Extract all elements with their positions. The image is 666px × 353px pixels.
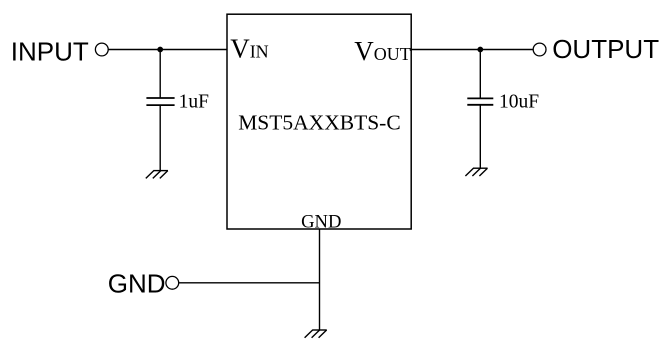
capacitor C1 1uF [146, 98, 174, 105]
wire C1 to ground [159, 105, 161, 171]
svg-text:10uF: 10uF [499, 92, 539, 113]
terminal INPUT [95, 43, 108, 56]
IC body U1 MST5AXXBTS-C [227, 14, 411, 229]
wire C2 to ground [479, 105, 481, 168]
capacitor C2 10uF [467, 98, 493, 104]
svg-text:1uF: 1uF [179, 92, 210, 113]
ground symbol below C2 [465, 168, 487, 176]
svg-text:GND: GND [301, 212, 341, 233]
node junction input/C1 [157, 47, 163, 53]
wire junction down to C1 [159, 50, 161, 99]
svg-text:VIN: VIN [230, 34, 269, 64]
svg-text:INPUT: INPUT [11, 36, 89, 66]
svg-text:MST5AXXBTS-C: MST5AXXBTS-C [238, 111, 400, 135]
terminal GND [166, 276, 179, 289]
node junction output/C2 [477, 47, 483, 53]
wire GND terminal to ground net [179, 282, 320, 284]
svg-text:GND: GND [108, 268, 166, 298]
wire GND pin down to ground [319, 229, 321, 330]
svg-text:VOUT: VOUT [354, 36, 411, 66]
ground symbol below C1 [146, 171, 168, 179]
ground symbol below GND pin [305, 330, 327, 338]
wire INPUT to VIN pin [108, 49, 227, 51]
terminal OUTPUT [533, 43, 546, 56]
svg-text:OUTPUT: OUTPUT [552, 34, 659, 64]
wire VOUT pin to OUTPUT [411, 49, 533, 51]
wire junction down to C2 [479, 50, 481, 99]
